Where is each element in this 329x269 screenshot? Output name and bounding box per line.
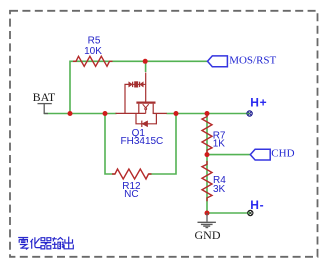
junction dot BAT rail left <box>68 111 73 116</box>
hanzi shu (transport) <box>52 237 63 248</box>
junction dot GND tap <box>205 211 210 216</box>
svg-text:R5: R5 <box>88 36 101 47</box>
svg-text:BAT: BAT <box>33 90 56 104</box>
text atomizer output (hand-drawn hanzi) <box>18 237 73 250</box>
node H+ <box>247 111 252 116</box>
port BAT pin <box>38 103 52 105</box>
hanzi wu (fog) <box>18 238 28 250</box>
wire R7 R4 column <box>206 114 208 214</box>
node H- <box>248 210 253 215</box>
hanzi qi (vessel) <box>41 238 52 249</box>
transistor Q1 body diode <box>142 121 148 127</box>
ground <box>206 213 208 222</box>
svg-text:H+: H+ <box>250 96 267 110</box>
resistor R5 <box>73 56 112 66</box>
transistor Q1 body arrow <box>143 104 149 108</box>
junction dot CHD tap <box>205 152 210 157</box>
junction dot top gate <box>143 59 148 64</box>
wire CHD <box>207 154 250 156</box>
svg-text:NC: NC <box>124 189 138 200</box>
svg-text:H-: H- <box>250 198 264 212</box>
svg-text:10K: 10K <box>84 46 102 57</box>
svg-text:GND: GND <box>195 228 221 242</box>
resistor R7 <box>202 114 212 154</box>
wire R12 left leg <box>105 114 115 175</box>
transistor Q1 left channel stub <box>138 104 140 114</box>
wire R12 right leg <box>149 114 176 175</box>
svg-text:CHD: CHD <box>271 148 294 160</box>
port CHD <box>250 149 270 160</box>
port MOS/RST <box>208 56 228 67</box>
resistor R12 <box>112 169 151 179</box>
transistor Q1 source pin <box>116 112 146 114</box>
transistor Q1 body diode loop <box>136 113 156 123</box>
transistor Q1 drain pin <box>153 112 167 114</box>
junction dot R12 left <box>103 111 108 116</box>
hanzi hua (change) <box>30 237 41 248</box>
wire top rail from left rail corner to MOS/RST port <box>70 61 208 113</box>
transistor Q1 gate zener left leg <box>125 84 129 113</box>
transistor Q1 right channel stub <box>152 104 154 114</box>
hanzi chu (out) <box>64 237 73 249</box>
svg-text:MOS/RST: MOS/RST <box>229 54 276 66</box>
wire main rail BAT to Q1 <box>44 113 116 115</box>
resistor R4 <box>202 161 212 201</box>
svg-text:FH3415C: FH3415C <box>120 136 163 147</box>
wire H- <box>207 212 248 214</box>
transistor Q1 gate pin <box>145 73 147 102</box>
transistor Q1 gate zener diodes <box>129 82 133 87</box>
wire main rail Q1 to H+ <box>167 113 248 115</box>
svg-text:1K: 1K <box>213 138 226 149</box>
wire gate stub <box>145 61 147 72</box>
svg-text:3K: 3K <box>213 184 226 195</box>
transistor Q1 gate bar <box>136 101 155 103</box>
junction dot R12 right <box>174 111 179 116</box>
junction dot R7 top <box>205 111 210 116</box>
